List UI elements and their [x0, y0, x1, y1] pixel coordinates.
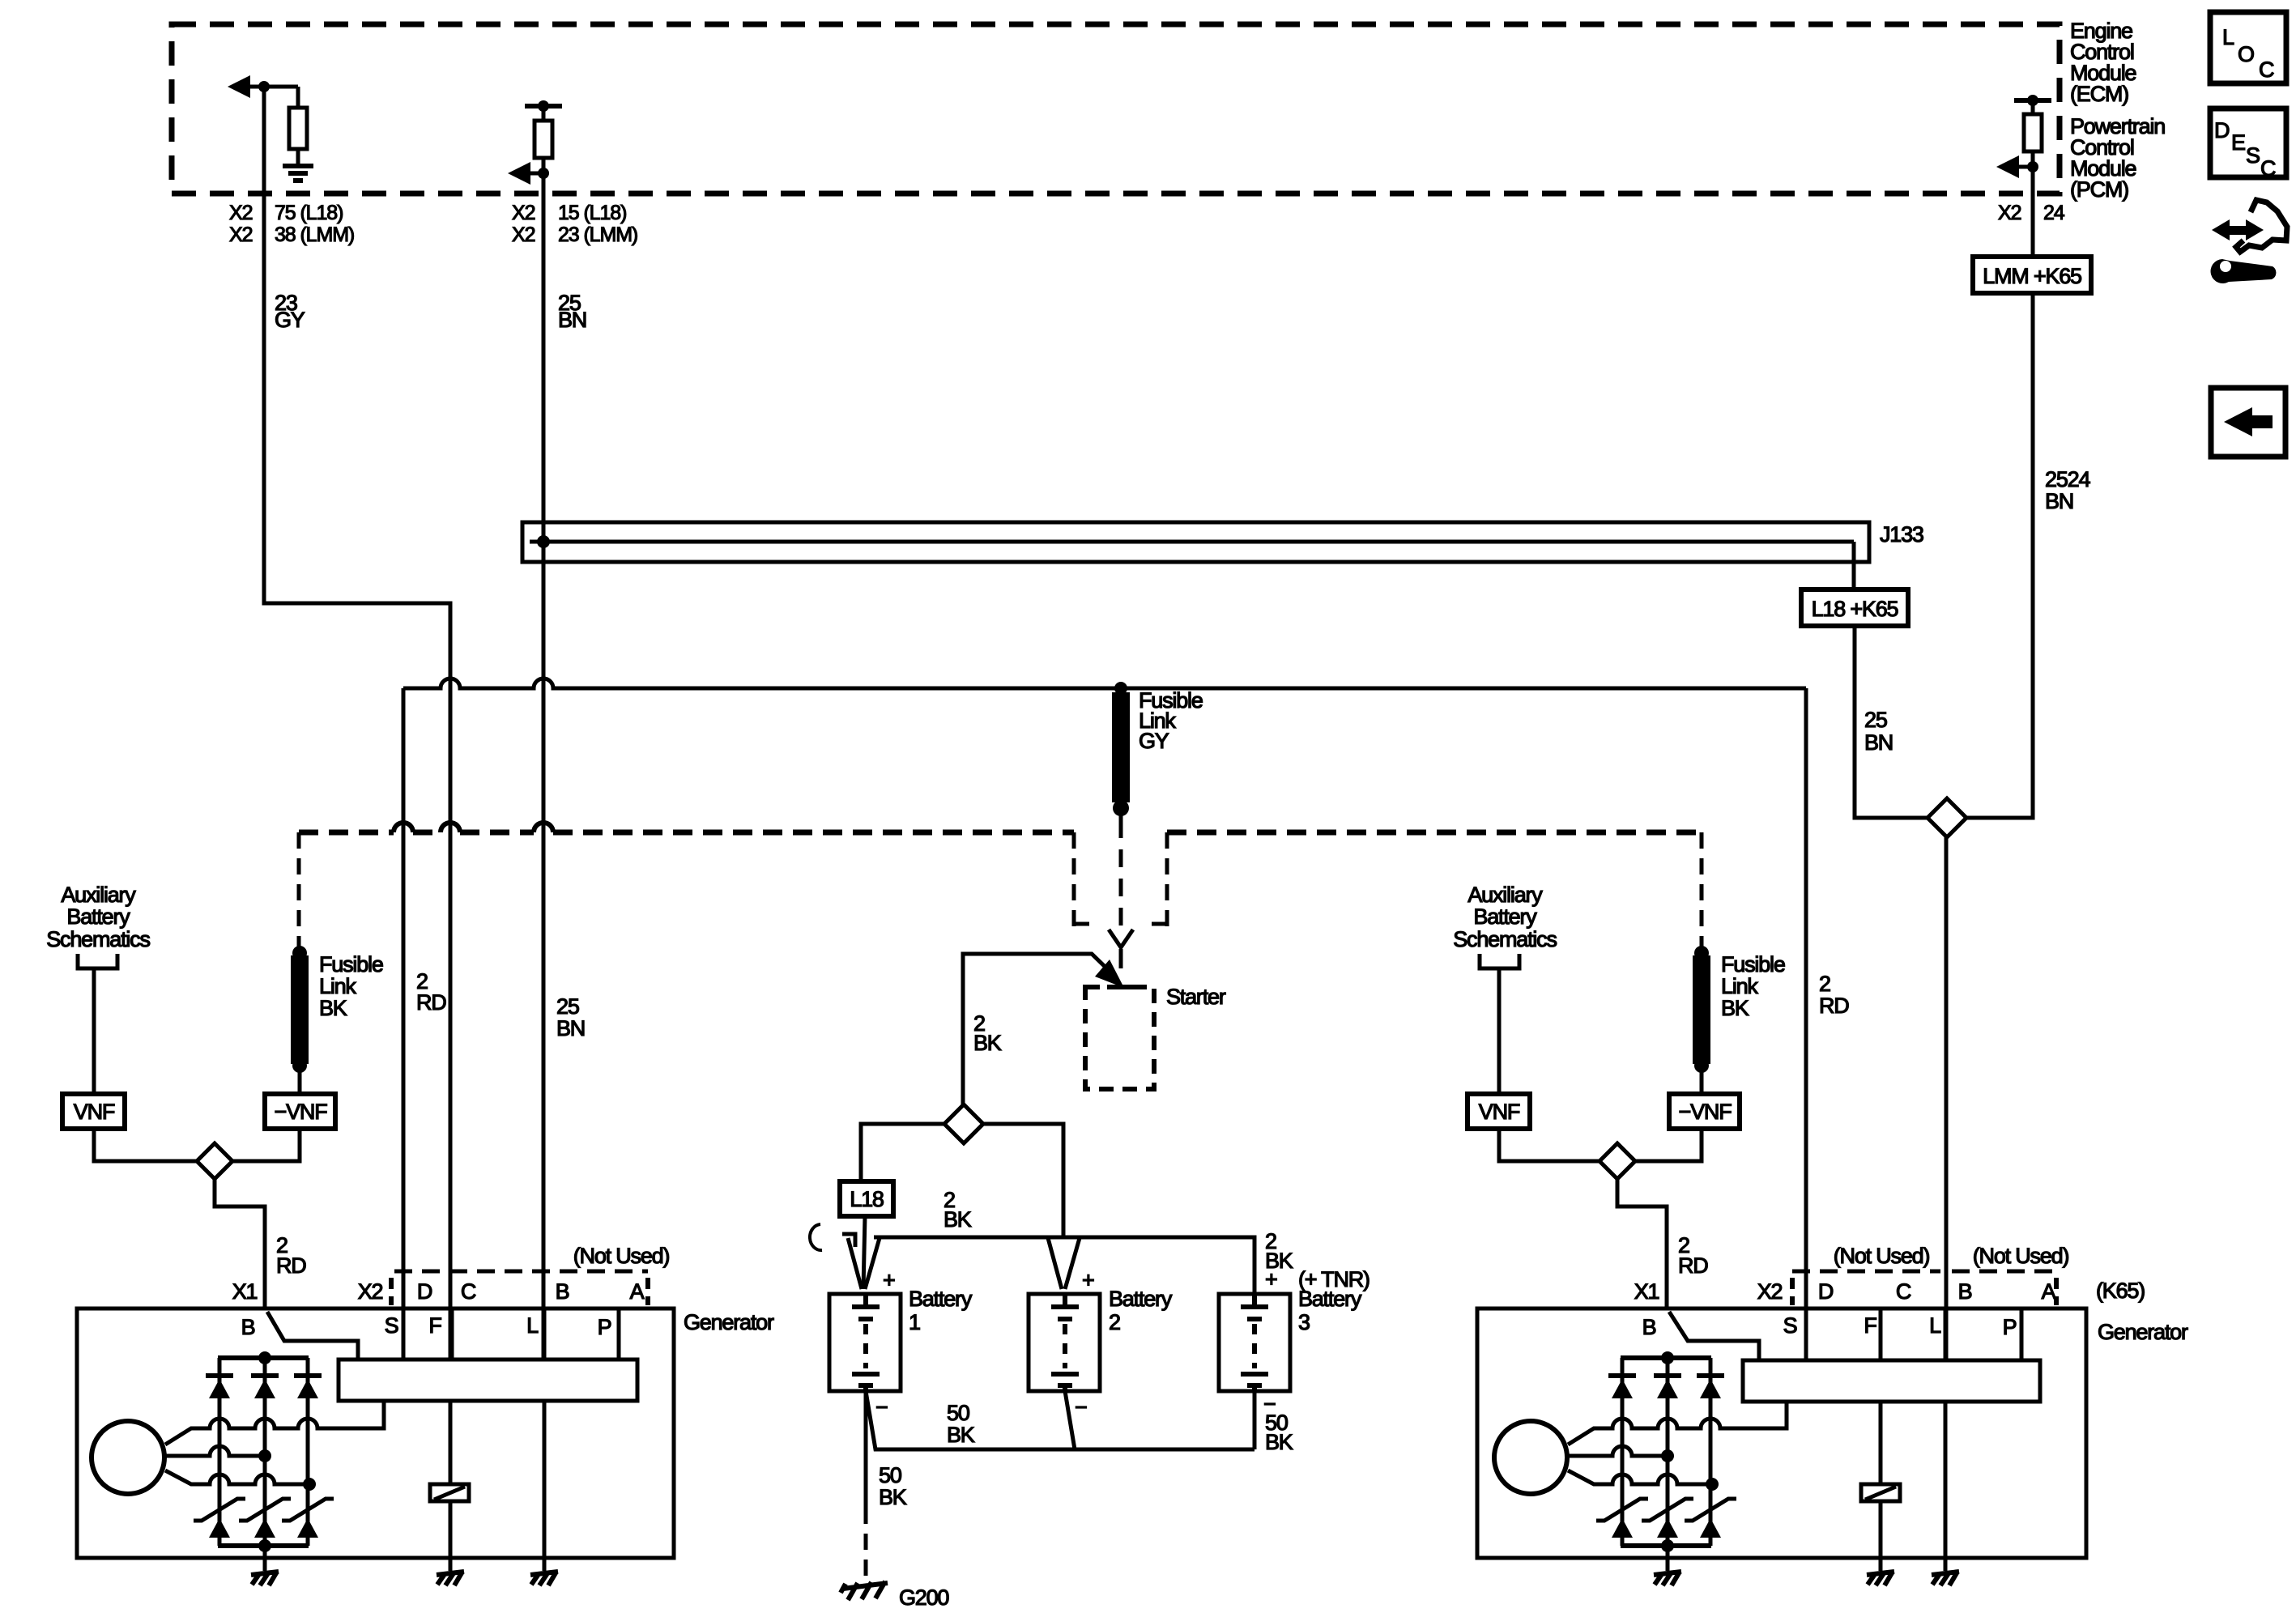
svg-text:Generator: Generator [684, 1310, 774, 1334]
svg-text:−VNF: −VNF [1679, 1100, 1732, 1124]
icon LOC box [2210, 12, 2286, 83]
grounds below left generator [251, 1572, 279, 1585]
pin stubs D C B P [402, 1308, 406, 1360]
svg-text:S: S [1783, 1313, 1797, 1338]
wire to VNF right [1497, 968, 1502, 1094]
svg-text:BK: BK [1721, 996, 1749, 1020]
svg-text:Schematics: Schematics [46, 927, 150, 951]
right off-page bracket [1480, 954, 1519, 968]
svg-text:X2: X2 [1998, 202, 2021, 224]
svg-text:C: C [2260, 156, 2276, 181]
connector box -VNF right [1669, 1094, 1740, 1129]
relay coil left [449, 1401, 453, 1484]
starter dashed box [1085, 987, 1154, 1089]
svg-text:BK: BK [319, 996, 347, 1020]
connector box -VNF left [265, 1094, 335, 1129]
svg-text:A: A [2042, 1279, 2056, 1304]
svg-text:RD: RD [416, 990, 446, 1015]
dashed connector bracket right [1792, 1270, 2055, 1274]
wire 2 RD right down to right generator pin D [1804, 688, 1808, 1360]
wire L to ground right [1944, 1402, 1948, 1571]
battery 2 plates [1063, 1294, 1067, 1307]
svg-text:L: L [526, 1313, 539, 1338]
splice diamond right [1928, 798, 1966, 837]
splice diamond right generator [1600, 1143, 1635, 1179]
wire fusible BK to -VNF [298, 1066, 302, 1094]
wire 25 BN from L18 +K65 down to splice diamond [1855, 626, 1928, 818]
svg-text:B: B [556, 1279, 569, 1304]
svg-text:Generator: Generator [2098, 1320, 2188, 1344]
svg-text:L: L [2222, 25, 2234, 49]
svg-text:B: B [241, 1315, 255, 1339]
svg-text:+: + [883, 1268, 895, 1292]
svg-text:(PCM): (PCM) [2070, 177, 2128, 202]
svg-text:P: P [598, 1315, 611, 1339]
ECM pin arrow (X2 75/38) [228, 75, 250, 98]
svg-text:23 (LMM): 23 (LMM) [558, 223, 637, 246]
left off-page bracket [78, 954, 117, 968]
svg-text:L18: L18 [850, 1187, 884, 1211]
svg-text:D: D [2214, 118, 2230, 143]
splice bus J133 [522, 522, 1869, 562]
harness dashed enclosure top line [299, 830, 1074, 836]
wire VNF to diamond right [1499, 1129, 1600, 1161]
connector box L18 [840, 1181, 893, 1216]
svg-text:Fusible: Fusible [319, 952, 383, 977]
left generator regulator [339, 1360, 637, 1401]
svg-text:BK: BK [1265, 1430, 1293, 1454]
battery 2 box [1029, 1294, 1100, 1391]
svg-text:RD: RD [1678, 1253, 1708, 1278]
svg-text:Battery: Battery [1109, 1287, 1173, 1311]
resistor inside PCM [2031, 100, 2035, 114]
junction dot fusible link GY [1114, 682, 1127, 695]
wire 2524 BN down from LMM +K65 [1966, 293, 2033, 818]
fusible link GY element [1112, 692, 1130, 802]
svg-text:Battery: Battery [1473, 904, 1537, 929]
svg-text:50: 50 [879, 1463, 901, 1487]
battery 1 box [829, 1294, 901, 1391]
dashed drop to right fusible link BK [1700, 832, 1704, 949]
relay coil right [1879, 1402, 1883, 1484]
pin stubs D F L P right [1804, 1308, 1808, 1360]
svg-text:BK: BK [947, 1423, 975, 1447]
wire to VNF [92, 968, 96, 1094]
svg-text:X2: X2 [229, 202, 253, 224]
connector box VNF right [1467, 1094, 1530, 1129]
svg-text:X2: X2 [512, 223, 535, 246]
svg-text:+: + [1265, 1267, 1277, 1291]
svg-text:Auxiliary: Auxiliary [1467, 883, 1543, 907]
pin stub S from B right [1669, 1312, 1759, 1360]
dashed arrowhead toward starter [1109, 930, 1133, 947]
svg-text:C: C [461, 1279, 476, 1304]
svg-text:−VNF: −VNF [275, 1100, 328, 1124]
svg-text:X2: X2 [229, 223, 253, 246]
connector box LMM +K65 [1973, 257, 2091, 293]
grounds below right generator [1654, 1572, 1681, 1585]
svg-text:GY: GY [275, 308, 305, 332]
wire 2 RD diamond to X1 [215, 1179, 265, 1308]
svg-text:A: A [630, 1279, 645, 1304]
junction dot ECM pin 75 [258, 81, 270, 92]
wire from diamond to L18 [861, 1124, 944, 1181]
splice V at battery 1 positive [848, 1238, 880, 1289]
svg-text:2: 2 [1819, 972, 1830, 996]
wire 23 GY from ECM X2-75 down to left generator pin C [264, 87, 450, 1360]
svg-text:RD: RD [276, 1253, 306, 1278]
svg-text:X2: X2 [512, 202, 535, 224]
right generator bridge [1494, 1358, 1787, 1571]
svg-text:BN: BN [2045, 489, 2073, 513]
wire from J133 down to L18 +K65 [1852, 542, 1856, 589]
svg-text:BN: BN [1864, 730, 1893, 755]
svg-text:X1: X1 [1634, 1279, 1659, 1304]
svg-text:(Not Used): (Not Used) [573, 1244, 670, 1268]
svg-text:S: S [2246, 143, 2260, 168]
clip symbol [810, 1224, 822, 1250]
wire VNF to diamond [94, 1129, 197, 1161]
svg-text:Battery: Battery [909, 1287, 973, 1311]
pin stub S from B [267, 1312, 358, 1360]
wire 2 RD diamond to X1 right [1617, 1179, 1667, 1308]
PCM pin T-bar (X2 24) [2014, 98, 2051, 103]
svg-text:Battery: Battery [66, 904, 130, 929]
dashed drop to left fusible link BK [297, 832, 301, 949]
svg-text:B: B [1642, 1315, 1656, 1339]
splice diamond left generator [197, 1143, 232, 1179]
icon wiring tool (double arrow, part outline, wrench) [2211, 200, 2287, 283]
svg-text:Link: Link [1721, 974, 1758, 998]
svg-text:−: − [1075, 1395, 1087, 1419]
svg-text:X1: X1 [232, 1279, 258, 1304]
battery 3 plates [1252, 1294, 1257, 1307]
wire from diamond down to right generator pin B [1945, 837, 1949, 1360]
right generator regulator [1743, 1360, 2040, 1402]
left generator top dot on bridge [92, 1358, 384, 1571]
svg-text:F: F [1864, 1313, 1876, 1338]
wire L to ground left [543, 1401, 547, 1571]
svg-text:D: D [1818, 1279, 1834, 1304]
svg-text:P: P [2003, 1315, 2017, 1339]
svg-text:1: 1 [909, 1310, 920, 1334]
svg-text:LMM +K65: LMM +K65 [1983, 264, 2081, 288]
svg-text:BK: BK [879, 1485, 907, 1509]
svg-text:F: F [428, 1313, 441, 1338]
svg-text:BN: BN [558, 308, 586, 332]
svg-text:RD: RD [1819, 994, 1849, 1018]
svg-text:BK: BK [944, 1207, 972, 1232]
svg-text:G200: G200 [899, 1585, 948, 1610]
svg-text:Auxiliary: Auxiliary [61, 883, 136, 907]
svg-text:75 (L18): 75 (L18) [275, 202, 343, 224]
horizontal bus wire 2 RD (left gen D to right gen D) [403, 679, 1806, 688]
svg-text:O: O [2238, 42, 2254, 66]
svg-text:X2: X2 [1757, 1279, 1783, 1304]
wire from L18 to battery 1 [863, 1216, 865, 1289]
svg-text:15 (L18): 15 (L18) [558, 202, 626, 224]
svg-text:50: 50 [947, 1401, 969, 1425]
svg-text:Link: Link [319, 974, 356, 998]
left generator box [77, 1308, 674, 1558]
svg-text:2: 2 [1109, 1310, 1120, 1334]
dashed notch verticals around starter feed [1074, 832, 1089, 926]
svg-text:S: S [385, 1313, 398, 1338]
svg-text:24: 24 [2043, 202, 2065, 224]
svg-text:VNF: VNF [74, 1100, 115, 1124]
connector box VNF left [62, 1094, 125, 1129]
ground inside ECM [283, 164, 313, 168]
dashed wire from fusible link GY to starter [1119, 820, 1123, 931]
svg-text:3: 3 [1298, 1310, 1310, 1334]
battery 1 plates [863, 1294, 868, 1307]
svg-text:(Not Used): (Not Used) [1973, 1244, 2069, 1268]
svg-text:GY: GY [1139, 729, 1169, 753]
svg-text:BK: BK [973, 1031, 1002, 1055]
svg-text:E: E [2231, 130, 2245, 155]
right fusible link BK element [1694, 946, 1709, 960]
svg-text:Starter: Starter [1166, 985, 1226, 1009]
svg-text:Schematics: Schematics [1453, 927, 1557, 951]
resistor inside ECM (pin 75) [296, 87, 300, 108]
svg-text:2524: 2524 [2045, 467, 2090, 491]
battery 3 box [1219, 1294, 1290, 1391]
svg-text:L18 +K65: L18 +K65 [1812, 597, 1898, 621]
arrow at PCM pin 24 [1996, 155, 2019, 178]
svg-text:BN: BN [556, 1016, 585, 1040]
svg-text:(ECM): (ECM) [2070, 82, 2128, 106]
svg-text:C: C [2259, 57, 2274, 82]
svg-text:+: + [1082, 1268, 1094, 1292]
svg-text:(K65): (K65) [2096, 1279, 2145, 1303]
svg-text:Fusible: Fusible [1721, 952, 1785, 977]
wire fusible BK to -VNF right [1700, 1066, 1704, 1094]
right generator box [1477, 1308, 2086, 1558]
svg-text:D: D [417, 1279, 432, 1304]
splice V at battery 2 positive [1048, 1238, 1080, 1289]
icon back arrow box [2211, 388, 2285, 457]
ground G200 [841, 1581, 888, 1600]
wire -VNF to diamond right [1635, 1129, 1702, 1161]
icon DESC box [2210, 109, 2286, 177]
ECM/PCM module dashed box [172, 24, 2060, 194]
svg-text:−: − [875, 1395, 888, 1419]
svg-text:25: 25 [1864, 708, 1887, 732]
wire -VNF to diamond [232, 1129, 300, 1161]
starter feed wire 2 BK [963, 954, 1117, 1104]
wire 2 RD left down to left generator pin D [402, 688, 406, 1360]
dashed connector bracket left [394, 1270, 648, 1274]
svg-text:L: L [1929, 1313, 1941, 1338]
svg-text:25: 25 [556, 994, 579, 1019]
ECM pin T-bar (X2 15/23) [525, 104, 562, 109]
svg-text:X2: X2 [358, 1279, 383, 1304]
left fusible link BK element [292, 946, 307, 960]
wire from PCM X2-24 down [2031, 167, 2035, 257]
svg-text:Battery: Battery [1298, 1287, 1362, 1311]
svg-text:B: B [1958, 1279, 1972, 1304]
connector box L18 +K65 [1801, 589, 1908, 626]
svg-text:VNF: VNF [1479, 1100, 1520, 1124]
resistor inside ECM (pin 15) [542, 106, 546, 121]
battery negative bus 50 BK [866, 1391, 1254, 1449]
splice diamond starter [944, 1104, 983, 1143]
wire 25 BN from ECM X2-15 down to J133 and generator [542, 173, 546, 1360]
wire from diamond to battery 2 [983, 1124, 1063, 1237]
svg-text:38 (LMM): 38 (LMM) [275, 223, 354, 246]
battery positive bus 2 BK [874, 1237, 1254, 1294]
arrow at ECM pin 15 [508, 162, 530, 185]
svg-text:C: C [1896, 1279, 1911, 1304]
svg-text:J133: J133 [1880, 522, 1923, 547]
svg-text:(Not Used): (Not Used) [1834, 1244, 1930, 1268]
wire 50 BK to G200 [864, 1391, 868, 1508]
